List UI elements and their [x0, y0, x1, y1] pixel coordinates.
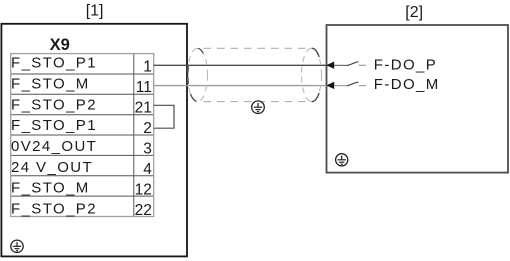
svg-text:F_STO_M: F_STO_M — [11, 180, 90, 197]
arrow into F-DO_P — [326, 62, 334, 69]
connection jog F-DO_P — [334, 62, 366, 66]
svg-text:X9: X9 — [50, 36, 70, 54]
cable shield ground symbol — [252, 101, 265, 114]
wire pin 1 to F-DO_P — [154, 64, 334, 66]
pin row 0V24_OUT pin 3 — [11, 138, 152, 158]
svg-text:F_STO_P1: F_STO_P1 — [11, 117, 97, 134]
svg-text:22: 22 — [135, 202, 152, 219]
svg-text:24 V_OUT: 24 V_OUT — [11, 159, 93, 176]
svg-text:3: 3 — [143, 141, 152, 158]
svg-text:[1]: [1] — [86, 3, 104, 20]
connection jog F-DO_M — [334, 82, 366, 86]
pin row 24 V_OUT pin 4 — [11, 159, 152, 178]
svg-text:4: 4 — [143, 161, 152, 178]
pin row F_STO_M pin 12 — [11, 180, 152, 199]
svg-text:12: 12 — [135, 182, 152, 199]
pin row F_STO_P1 pin 2 — [11, 117, 152, 137]
cable shield right end cap solid arcs — [312, 48, 320, 101]
pin row F_STO_M pin 11 — [11, 75, 152, 95]
cable shield bottom dashed line — [198, 101, 312, 103]
svg-text:F-DO_P: F-DO_P — [374, 56, 437, 73]
svg-text:11: 11 — [136, 79, 152, 96]
connector X9 table grid — [11, 54, 154, 217]
svg-text:F-DO_M: F-DO_M — [374, 76, 440, 93]
svg-text:F_STO_P1: F_STO_P1 — [11, 55, 97, 72]
block [2] ground symbol — [336, 154, 348, 166]
svg-text:F_STO_P2: F_STO_P2 — [11, 96, 97, 113]
cable shield left end cap dashed ellipse — [188, 48, 208, 101]
svg-text:2: 2 — [143, 120, 152, 137]
pin row F_STO_P2 pin 21 — [11, 96, 152, 116]
svg-text:F_STO_P2: F_STO_P2 — [11, 201, 97, 218]
cable shield left end cap solid arc — [188, 48, 204, 101]
jumper loop pin 21 to pin 2 — [154, 105, 174, 128]
block [2] outline — [327, 25, 509, 173]
svg-text:0V24_OUT: 0V24_OUT — [11, 138, 97, 155]
cable shield right end cap dashed ellipse — [302, 48, 322, 101]
wire pin 11 to F-DO_M — [154, 85, 334, 87]
svg-text:21: 21 — [135, 99, 152, 116]
pin row F_STO_P1 pin 1 — [11, 55, 152, 76]
block [1] ground symbol — [11, 240, 23, 252]
svg-text:F_STO_M: F_STO_M — [11, 75, 90, 92]
pin row F_STO_P2 pin 22 — [11, 201, 152, 220]
svg-text:[2]: [2] — [405, 4, 423, 21]
svg-text:1: 1 — [143, 58, 152, 75]
arrow into F-DO_M — [326, 82, 334, 89]
cable shield top dashed line — [198, 47, 312, 49]
block [1] outline — [1, 24, 187, 257]
